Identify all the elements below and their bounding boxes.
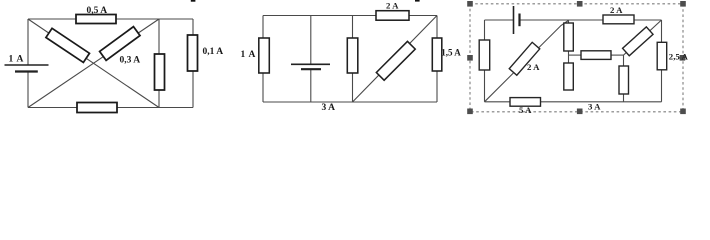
svg-text:1 A: 1 A xyxy=(9,55,25,65)
svg-text:0,5 A: 0,5 A xyxy=(87,6,108,16)
svg-text:2 A: 2 A xyxy=(610,5,623,15)
svg-text:2,5 A: 2,5 A xyxy=(669,52,689,62)
svg-text:3 A: 3 A xyxy=(322,103,336,113)
svg-text:1 A: 1 A xyxy=(241,50,257,60)
svg-text:2 A: 2 A xyxy=(386,0,399,10)
svg-text:2 A: 2 A xyxy=(527,62,540,72)
svg-text:0,3 A: 0,3 A xyxy=(120,55,141,65)
svg-text:3 A: 3 A xyxy=(588,102,601,112)
svg-text:1,5 A: 1,5 A xyxy=(441,47,461,57)
svg-text:0,1 A: 0,1 A xyxy=(203,47,224,57)
svg-text:5 A: 5 A xyxy=(519,105,532,115)
